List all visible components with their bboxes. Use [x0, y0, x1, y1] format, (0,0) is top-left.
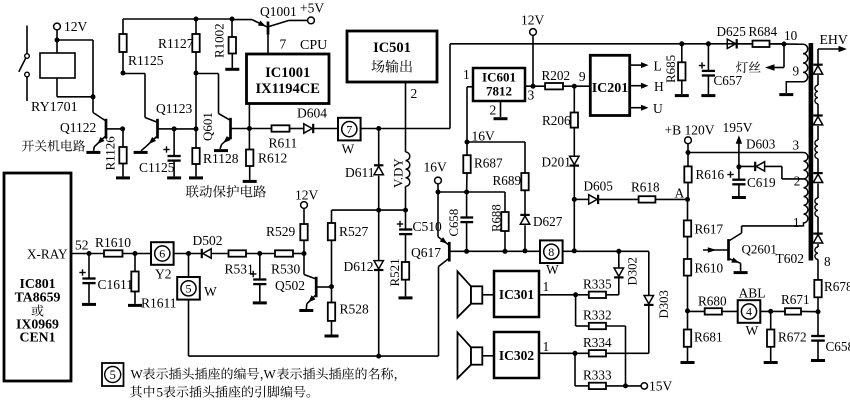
node top rail R1127	[194, 17, 199, 22]
svg-text:3: 3	[528, 88, 535, 103]
node relay-Q1122	[91, 94, 96, 99]
diode D604	[304, 124, 312, 133]
svg-text:Q502: Q502	[275, 278, 305, 293]
wire 12V down to R202 rail	[532, 35, 534, 86]
resistor R206	[573, 86, 575, 112]
wire IC601 pin3 to R202	[525, 85, 545, 87]
svg-text:IC302: IC302	[499, 348, 535, 363]
ground winding 9	[779, 93, 793, 96]
ground R1611	[128, 304, 142, 307]
wire top rail to Q1001 emitter	[232, 19, 252, 21]
secondary winding 1	[817, 75, 819, 85]
svg-text:R1126: R1126	[103, 136, 118, 171]
ground R1126	[116, 176, 130, 179]
svg-text:D627: D627	[533, 214, 563, 229]
op-amp U1 IC1001 box	[247, 54, 330, 104]
svg-text:R612: R612	[258, 151, 287, 166]
node Q1123 base / C1125	[172, 126, 177, 131]
node D302	[616, 249, 621, 254]
svg-text:Y2: Y2	[155, 267, 172, 282]
svg-text:Q1122: Q1122	[60, 120, 96, 135]
svg-text:16V: 16V	[424, 160, 448, 175]
wire R334 to D303	[606, 352, 649, 354]
speaker LS2	[458, 332, 472, 378]
wire R618 to node A	[655, 198, 687, 200]
diode D-EHV-4	[813, 233, 822, 235]
wire bottom rail	[189, 355, 439, 357]
wire R611 to D604	[290, 128, 304, 130]
wire 16V net to R689	[467, 141, 525, 143]
connector 5 plug	[188, 254, 190, 278]
wire R531 to R530	[246, 253, 275, 255]
wire node down to connector 8 rail	[573, 199, 575, 251]
svg-text:D603: D603	[746, 137, 776, 152]
svg-text:R687: R687	[474, 156, 503, 171]
diode D201 zener	[570, 156, 579, 164]
wire D502 to R531	[211, 253, 228, 255]
svg-text:R681: R681	[694, 330, 723, 345]
node D611 branch	[376, 126, 381, 131]
wire R530 to Q502 base node	[293, 253, 304, 255]
EHV output arrow	[817, 49, 819, 64]
svg-text:5: 5	[157, 385, 164, 400]
resistor R1611	[134, 254, 136, 272]
wire R671 to R678 node	[801, 310, 818, 312]
wire IC301 pin1 to R335	[539, 294, 589, 296]
op-amp U6 IC301 box	[494, 271, 539, 317]
resistor R611	[272, 125, 290, 131]
ground R672	[764, 361, 778, 364]
terminal 12V (relay supply)	[54, 23, 61, 30]
resistor R618	[639, 196, 656, 202]
ground R521	[399, 296, 413, 299]
svg-text:1: 1	[793, 215, 800, 230]
secondary winding 2	[817, 126, 819, 140]
IC201 output arrow H	[630, 85, 642, 87]
svg-text:R335: R335	[583, 277, 612, 292]
node R687/C658	[464, 190, 469, 195]
terminal +5V	[308, 17, 315, 24]
relay RY1701 coil box	[40, 53, 75, 78]
svg-text:T602: T602	[776, 251, 805, 266]
diode D-EHV-3	[813, 172, 822, 174]
node 16V IC601 output	[465, 140, 470, 145]
svg-text:1: 1	[543, 339, 550, 354]
svg-text:R530: R530	[271, 262, 301, 277]
diode D625	[727, 39, 735, 48]
wire IC601 pin2 ground	[500, 101, 502, 117]
resistor R680	[688, 310, 705, 312]
svg-text:12V: 12V	[521, 13, 545, 28]
svg-text:CPU: CPU	[300, 38, 327, 53]
svg-text:4: 4	[746, 305, 752, 319]
label protection circuit 联动保护电路	[186, 185, 266, 198]
svg-text:W: W	[264, 367, 277, 382]
svg-text:R528: R528	[340, 302, 370, 317]
capacitor C619	[738, 167, 740, 179]
svg-text:R521: R521	[387, 258, 402, 286]
svg-text:R672: R672	[778, 330, 807, 345]
ground R1128	[189, 176, 203, 179]
node junction 12V	[55, 38, 60, 43]
ground IC601	[494, 117, 508, 120]
svg-text:12V: 12V	[295, 188, 319, 203]
wire IC302 pin1 to R334	[539, 352, 589, 354]
svg-text:5: 5	[186, 282, 192, 296]
svg-text:1: 1	[543, 279, 550, 294]
node 15V	[623, 383, 628, 388]
ground R1002	[225, 68, 239, 71]
node pin 10	[782, 42, 787, 47]
wire R527 rail	[332, 209, 406, 211]
svg-text:195V: 195V	[723, 120, 753, 135]
diode D502	[201, 249, 203, 258]
resistor R521	[402, 262, 409, 280]
node R1611	[133, 251, 138, 256]
IC201 output arrow U	[630, 107, 642, 109]
wire D627 to rail	[524, 225, 526, 251]
svg-text:2: 2	[794, 174, 801, 189]
svg-text:V.DY: V.DY	[391, 158, 406, 188]
svg-text:W: W	[342, 142, 355, 157]
svg-text:D605: D605	[584, 179, 614, 194]
resistor R678	[814, 280, 821, 297]
terminal +B 120V	[685, 137, 692, 144]
resistor R687	[466, 142, 468, 155]
ground C1611	[82, 303, 96, 306]
wire R1127 node down to base net	[195, 73, 197, 129]
node IC1001/Q601/R611/R612	[247, 126, 252, 131]
capacitor C1125	[173, 129, 175, 155]
ground Q1123 emitter	[134, 151, 148, 154]
wire 16V terminal down	[437, 184, 439, 192]
node +B	[686, 150, 691, 155]
transistor Q601	[219, 114, 230, 120]
resistor R332	[575, 295, 577, 326]
svg-text:Q617: Q617	[411, 245, 441, 260]
svg-text:12V: 12V	[64, 19, 88, 34]
wire R335 to D302	[606, 294, 619, 296]
svg-text:C657: C657	[714, 73, 743, 88]
resistor R202	[545, 83, 563, 89]
wire connector 5 down to bottom rail	[188, 300, 190, 356]
svg-text:R688: R688	[490, 204, 504, 232]
svg-text:Q601: Q601	[200, 112, 215, 141]
resistor R1125	[122, 19, 124, 34]
svg-text:R684: R684	[749, 24, 778, 39]
svg-text:IC1001: IC1001	[265, 65, 310, 81]
svg-text:CEN1: CEN1	[19, 330, 55, 345]
svg-text:R616: R616	[696, 167, 725, 182]
resistor R1128	[195, 129, 197, 148]
resistor R334	[589, 350, 606, 356]
filament tap arrow 灯丝	[783, 44, 785, 68]
note text line 1	[143, 368, 397, 382]
transistor Q1122	[92, 97, 94, 113]
svg-text:10: 10	[784, 28, 798, 43]
ground Q601 emitter	[214, 149, 228, 152]
op-amp U3 IC801 X-RAY protector box	[4, 173, 71, 381]
diode D-EHV-2	[813, 114, 822, 116]
wire +B rail to pin 3	[688, 152, 803, 154]
resistor R681	[687, 311, 689, 330]
svg-text:R685: R685	[663, 55, 678, 83]
op-amp U7 IC302 box	[494, 332, 539, 378]
svg-text:D625: D625	[717, 24, 747, 39]
svg-text:R610: R610	[695, 261, 724, 276]
node Q502 collector	[329, 284, 334, 289]
capacitor C657	[707, 44, 709, 70]
diode D627	[520, 214, 529, 216]
resistor R689	[521, 173, 528, 190]
terminal 16V	[435, 177, 442, 184]
svg-text:IX1194CE: IX1194CE	[255, 81, 319, 97]
wire R333 to 15V terminal	[606, 385, 641, 387]
wire emitter net rail	[438, 191, 505, 193]
svg-text:D604: D604	[297, 106, 327, 121]
resistor R1002	[231, 19, 233, 37]
resistor R616	[687, 153, 689, 167]
diode D-EHV-1	[813, 64, 822, 66]
note text line 2	[130, 386, 310, 398]
svg-text:8: 8	[548, 245, 554, 259]
svg-text:W: W	[746, 323, 759, 338]
IC201 output arrow L	[630, 64, 642, 66]
wire D612 to bottom rail	[378, 271, 380, 357]
label 或 (or)	[32, 305, 44, 317]
resistor R335	[589, 292, 606, 298]
node R688 base	[503, 249, 508, 254]
wire Q1123 base to R1128 node	[174, 128, 196, 130]
wire R1610 to node	[123, 253, 152, 255]
wire D611 to node	[378, 176, 380, 210]
svg-text:IC501: IC501	[373, 40, 411, 56]
svg-text:R1611: R1611	[141, 296, 177, 311]
wire relay coil return	[56, 78, 58, 97]
wire rail corner to D303	[648, 251, 650, 295]
svg-text:D201: D201	[542, 155, 571, 170]
power switch S	[26, 26, 28, 54]
svg-text:IC601: IC601	[482, 70, 516, 85]
resistor R529	[303, 208, 305, 224]
terminal 12V (main)	[530, 29, 537, 36]
svg-text:D612: D612	[344, 259, 374, 274]
svg-text:R1127: R1127	[158, 36, 194, 51]
svg-text:R617: R617	[695, 222, 724, 237]
node R678/C658	[816, 309, 821, 314]
svg-text:7812: 7812	[486, 84, 512, 99]
svg-text:TA8659: TA8659	[15, 290, 61, 305]
transistor Q1001	[252, 20, 267, 27]
wire R202 to pin9 node	[563, 85, 590, 87]
svg-text:W: W	[546, 262, 559, 277]
resistor R617	[687, 199, 689, 220]
label IC501 场输出	[372, 60, 412, 73]
transistor Q502	[303, 254, 305, 275]
svg-text:1: 1	[463, 67, 470, 82]
transistor Q1123	[145, 118, 157, 123]
ground C1125	[167, 176, 181, 179]
wire D605 to R618	[599, 198, 639, 200]
svg-text:R531: R531	[225, 262, 254, 277]
capacitor C512 (unlabelled)	[259, 254, 261, 279]
node D627 base	[523, 248, 528, 253]
svg-text:R1128: R1128	[203, 151, 239, 166]
transistor Q617	[438, 237, 449, 245]
svg-text:R1125: R1125	[128, 53, 164, 68]
ground Q502 emitter	[299, 309, 313, 312]
svg-text:5: 5	[110, 368, 116, 382]
svg-text:U: U	[653, 101, 663, 116]
wire connector 8 to D302 corner	[563, 250, 649, 252]
wire rail from corner x450	[449, 44, 451, 129]
svg-text:ABL: ABL	[739, 286, 766, 301]
op-amp U5 IC201 box	[590, 55, 629, 115]
svg-text:R527: R527	[339, 224, 369, 239]
connector 4 plug ABL	[738, 300, 761, 323]
node D603/C619	[736, 164, 741, 169]
diode D612 zener	[378, 210, 380, 260]
node top rail R1002	[230, 17, 235, 22]
resistor R333	[574, 353, 576, 386]
svg-text:R529: R529	[266, 224, 296, 239]
wire D625 to R684	[737, 43, 752, 45]
svg-text:6: 6	[159, 247, 165, 261]
svg-text:D502: D502	[193, 233, 223, 248]
diode D611 zener	[378, 129, 380, 166]
resistor R1126	[122, 129, 124, 147]
svg-text:W: W	[131, 367, 144, 382]
wire D603 to pin 2	[765, 165, 782, 167]
resistor R1127	[192, 34, 199, 52]
node R672	[768, 309, 773, 314]
svg-text:9: 9	[793, 64, 800, 79]
connector 7 plug	[338, 118, 361, 141]
wire bottom rail up to Q617 collector	[438, 267, 440, 357]
resistor R672	[770, 311, 772, 329]
node Q1123 base / R1128	[194, 126, 199, 131]
terminal 15V	[641, 383, 647, 389]
svg-text:7: 7	[280, 37, 287, 52]
note symbol connector 5	[102, 363, 124, 386]
op-amp U4 IC601 regulator box	[473, 68, 525, 101]
svg-text:C658: C658	[826, 339, 850, 354]
ground Q1122 emitter	[86, 151, 100, 154]
node D605 rail	[572, 248, 577, 253]
resistor R528	[331, 287, 333, 303]
node 12V/R202	[531, 84, 536, 89]
svg-text:C1125: C1125	[139, 160, 175, 175]
svg-text:L: L	[654, 59, 662, 74]
svg-text:2: 2	[411, 86, 418, 101]
ground R612	[243, 180, 257, 183]
terminal 12V (Q502 bias)	[301, 202, 308, 209]
wire R1125 to Q1123 collector	[123, 73, 145, 75]
secondary winding 4 (pin 8)	[817, 244, 819, 247]
svg-text:3: 3	[793, 138, 800, 153]
capacitor C658 (16V net)	[466, 192, 468, 217]
svg-text:D611: D611	[345, 165, 375, 180]
svg-text:R1610: R1610	[95, 235, 131, 250]
node R685 top	[679, 41, 684, 46]
secondary winding 3	[817, 184, 819, 199]
node C1611	[87, 251, 92, 256]
wire R680 to connector 4	[722, 310, 738, 312]
node D605 branch	[572, 197, 577, 202]
node filter cap	[257, 251, 262, 256]
svg-text:R689: R689	[493, 173, 522, 188]
node C657 top	[706, 41, 711, 46]
node R1125 bottom	[121, 71, 126, 76]
svg-text:W: W	[204, 284, 217, 299]
svg-text:9: 9	[579, 69, 586, 84]
wire connector 7 to corner	[361, 128, 450, 130]
connector 8 plug	[540, 240, 563, 263]
wire IC1001 output pin down	[248, 104, 250, 129]
resistor R531	[229, 250, 247, 256]
ground Q2601 emitter	[734, 271, 748, 274]
resistor R527	[331, 210, 333, 223]
svg-text:52: 52	[75, 238, 89, 253]
svg-text:EHV: EHV	[820, 32, 848, 47]
diode D605	[589, 195, 597, 204]
wire connector 6 to D502	[174, 253, 202, 255]
resistor R612	[248, 129, 250, 150]
transformer T602 primary winding 3-2-1	[803, 153, 808, 179]
resistor R610	[684, 259, 691, 276]
svg-text:+B 120V: +B 120V	[665, 123, 715, 138]
node connector 5 branch	[186, 251, 191, 256]
ground C657	[701, 94, 715, 97]
svg-text:C619: C619	[747, 175, 776, 190]
svg-text:R333: R333	[583, 368, 612, 383]
svg-text:R332: R332	[583, 308, 612, 323]
node pin 9 / R206	[572, 84, 577, 89]
wire X-RAY pin 52	[71, 253, 104, 255]
wire 16V to Q617 emitter	[437, 192, 439, 237]
wire D201 to D605 node	[573, 166, 575, 199]
svg-text:C658: C658	[447, 209, 461, 237]
svg-text:A: A	[675, 186, 685, 201]
svg-text:R611: R611	[269, 136, 298, 151]
node D612 bottom	[376, 354, 381, 359]
svg-text:R680: R680	[698, 294, 727, 309]
transformer T602 winding 10-9	[786, 44, 807, 93]
resistor R1610	[104, 250, 123, 256]
diode D303	[644, 296, 653, 304]
svg-text:Q1123: Q1123	[156, 101, 192, 116]
svg-text:R618: R618	[631, 180, 660, 195]
node C658 base	[464, 249, 469, 254]
ground filter cap	[253, 301, 267, 304]
resistor R530	[275, 250, 293, 256]
svg-text:R1002: R1002	[212, 23, 227, 58]
capacitor C510	[405, 210, 407, 229]
svg-text:8: 8	[824, 254, 831, 269]
svg-text:X-RAY: X-RAY	[27, 247, 68, 262]
node A	[685, 197, 690, 202]
ground C658	[811, 359, 825, 362]
label switch circuit 开关机电路	[22, 140, 85, 152]
svg-text:C1611: C1611	[98, 277, 134, 292]
ground R685	[675, 94, 689, 97]
svg-text:IC201: IC201	[592, 81, 629, 96]
op-amp U2 IC501 box	[347, 31, 437, 82]
node R529/R530/Q502 base	[302, 251, 307, 256]
diode D302	[618, 251, 620, 267]
wire connector 4 to node	[760, 310, 785, 312]
node R680/R681	[685, 308, 690, 313]
